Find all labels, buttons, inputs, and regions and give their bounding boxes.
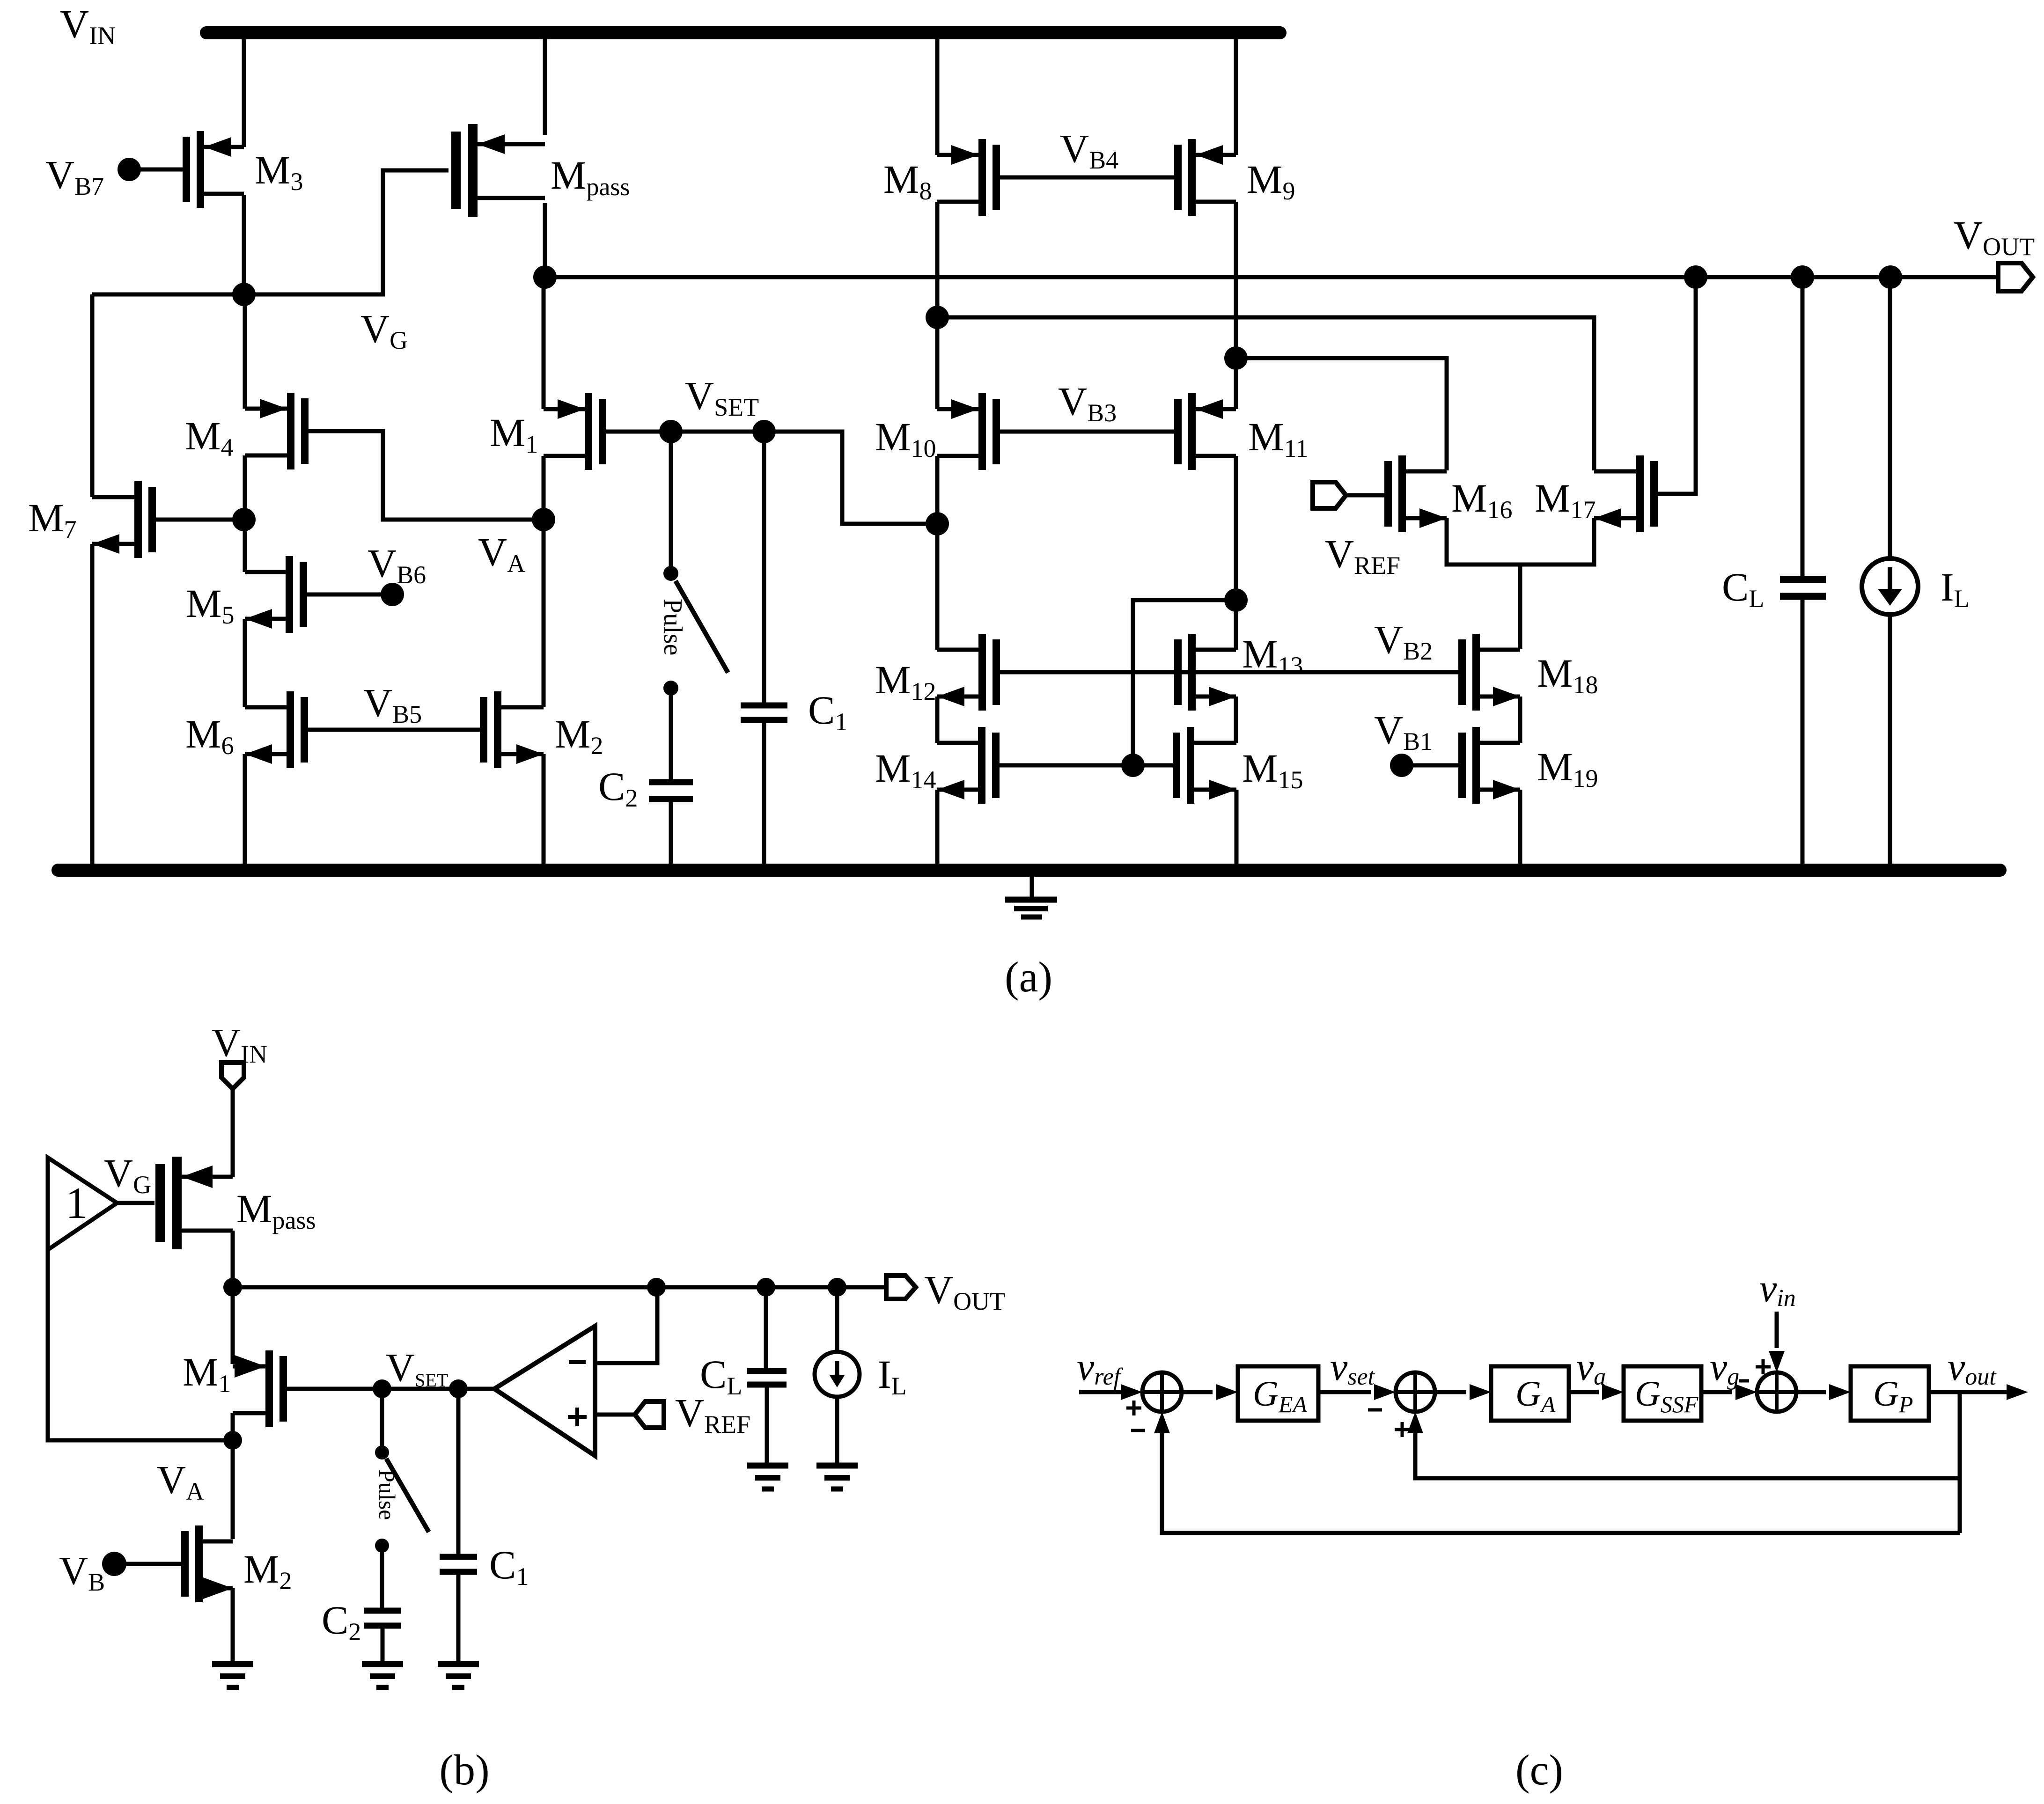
wire M5 source to M6 drain (243, 619, 247, 707)
switch terminal Pulse top (669, 432, 673, 566)
transistor M11 (PMOS) (1188, 393, 1196, 470)
wire VIN bus to M3 source (242, 39, 246, 147)
transistor M10 (PMOS) (978, 393, 986, 470)
wire C2 to ground (669, 802, 673, 864)
wire M19 source to ground (1518, 790, 1522, 864)
svg-text:(a): (a) (1005, 953, 1052, 1001)
wire M12 source to M14 drain (935, 697, 940, 743)
wire CL to ground b (765, 1387, 769, 1463)
wire M7 source to ground (90, 544, 95, 864)
transistor M1 (PMOS) (585, 393, 592, 470)
node VOUT b (223, 1278, 242, 1297)
node VSET b 2 (449, 1379, 468, 1398)
opamp minus sign (569, 1360, 586, 1364)
wire VOUT to CL b (764, 1287, 768, 1368)
capacitor CL b (747, 1368, 787, 1374)
node M8 drain branch (926, 306, 949, 329)
wire VOUT node to M1 source b (231, 1287, 235, 1364)
wire M17 gate to VOUT (1657, 277, 1696, 494)
wire GEA to S2 (1318, 1390, 1371, 1394)
wire VOUT rail (545, 275, 1998, 279)
node M14-M15 gate (1121, 754, 1145, 777)
wire M3 drain to node VG (242, 195, 246, 294)
wire VB4 M8 gate to M9 gate (1000, 176, 1174, 180)
summer S2 (1396, 1372, 1435, 1412)
wire M2 source to ground (542, 754, 546, 864)
wire vref input (1079, 1390, 1123, 1394)
ground symbol (1030, 877, 1034, 897)
wire M14 gate to M15 gate (997, 763, 1177, 768)
wire GSSF to S3 (1701, 1390, 1732, 1394)
wire M3 gate to VB7 (136, 168, 185, 172)
wire IL to ground b (835, 1397, 839, 1463)
wire opamp plus input to VREF b (595, 1413, 635, 1417)
svg-text:Pulse: Pulse (658, 599, 687, 655)
block GSSF (1624, 1366, 1701, 1421)
ground bus (58, 864, 2000, 877)
wire M7 drain up to VG wire (90, 294, 95, 497)
node VOUT-CL b (757, 1278, 775, 1297)
wire M8 drain down (935, 202, 940, 317)
sign minus S1 (1131, 1429, 1145, 1432)
wire M9-drain to M16 drain (1236, 358, 1447, 470)
transistor M15 (NMOS) (1187, 727, 1194, 804)
wire M2 drain to node VA (542, 520, 546, 707)
node VA (532, 508, 555, 531)
wire M1 gate to VSET (606, 430, 671, 434)
wire M6 source to ground (243, 754, 247, 864)
wire SSF joint sources (1447, 518, 1594, 565)
switch terminal Pulse bottom (663, 681, 678, 696)
wire VB2 gates M12 M13 M18 (1000, 670, 1460, 675)
wire M18 source to M19 drain (1518, 697, 1522, 743)
port VREF b (635, 1401, 664, 1428)
transistor M7 (NMOS) (134, 481, 142, 558)
wire VSET segment (671, 430, 764, 434)
wire VOUT to CL (1801, 277, 1805, 576)
port VREF (1313, 482, 1346, 508)
wire VOUT node to M1 source (542, 277, 546, 409)
transistor M16 (NMOS) (1398, 455, 1406, 532)
transistor M2 (NMOS) (494, 691, 501, 768)
wire VIN bus to M8 source (935, 39, 940, 155)
wire VG to Mpass gate (244, 170, 449, 294)
feedback wire buffer to VA b (48, 1250, 233, 1440)
wire CL to ground (1801, 600, 1805, 864)
svg-text:(c): (c) (1515, 1746, 1563, 1794)
wire M10 drain column (935, 456, 940, 650)
switch Pulse b bottom (375, 1539, 389, 1553)
sign minus S2 (1368, 1408, 1382, 1412)
transistor M18 (NMOS) (1472, 634, 1480, 711)
transistor M14 (NMOS) (978, 727, 985, 804)
wire VSET to opamp b (382, 1387, 494, 1391)
transistor M19 (NMOS) (1472, 727, 1480, 804)
summer S1 (1142, 1372, 1182, 1412)
wire Mpass drain to VOUT node (543, 203, 547, 277)
wire M7 gate lead (156, 518, 244, 522)
transistor Mpass (PMOS pass device) (468, 124, 478, 217)
capacitor C1 (741, 703, 787, 709)
block GEA (1238, 1366, 1318, 1421)
wire M1 drain to node VA (542, 456, 546, 520)
terminal VB6 (381, 583, 404, 606)
wire feedback to S1 (1162, 1433, 1960, 1533)
wire VG to M7 drain column (92, 293, 244, 297)
wire VOUT to IL (1888, 277, 1892, 558)
wire vin input (1775, 1312, 1779, 1348)
port VOUT (1998, 263, 2033, 291)
ground IL b (816, 1463, 858, 1469)
transistor M2 b (NMOS) (195, 1525, 203, 1602)
transistor M5 (NMOS) (286, 556, 293, 633)
summer S3 (1757, 1372, 1796, 1412)
switch Pulse b top (380, 1389, 384, 1446)
wire feedback tap (1958, 1392, 1962, 1533)
wire M15 source to ground (1235, 790, 1239, 864)
wire VB5 M6 gate to M2 gate (308, 728, 485, 732)
wire cross-couple to M14/M15 gates (1133, 600, 1236, 765)
transistor M4 (PMOS) (287, 393, 294, 469)
terminal VB b (102, 1552, 126, 1576)
wire to M10 source (935, 317, 940, 409)
opamp plus sign (568, 1415, 587, 1419)
node VOUT-IL (1879, 265, 1902, 289)
block GA (1491, 1366, 1569, 1421)
node VSET b 1 (373, 1379, 391, 1398)
capacitor C2 b (364, 1608, 401, 1614)
wire opamp minus input to VOUT b (595, 1287, 657, 1363)
port VOUT b (886, 1276, 916, 1299)
wire M1 drain to VA b (231, 1413, 235, 1440)
sign minus vg input (1739, 1379, 1749, 1383)
wire S3 to GP (1796, 1390, 1826, 1394)
terminal VB1 (1390, 754, 1413, 777)
wire VOUT to IL b (835, 1287, 839, 1352)
svg-text:1: 1 (66, 1178, 88, 1228)
node VG (232, 283, 256, 306)
transistor M9 (PMOS) (1188, 139, 1196, 216)
svg-text:Pulse: Pulse (374, 1469, 400, 1520)
wire VSET to C1 (762, 432, 766, 703)
node VSET 1 (659, 420, 683, 443)
ground C1 b (438, 1661, 479, 1667)
ground M2 b (212, 1661, 253, 1667)
wire M11 drain to M13 drain (1234, 600, 1238, 650)
wire vout output (1929, 1390, 2008, 1394)
wire M9 node to M11 source (1234, 358, 1238, 409)
node M7 gate (232, 508, 256, 531)
wire VREF to M16 gate (1346, 493, 1387, 498)
wire M2 source to ground b (231, 1588, 235, 1661)
transistor M12 (NMOS) (978, 634, 986, 711)
switch blade Pulse b (386, 1459, 429, 1532)
ground C2 b (362, 1661, 403, 1667)
wire M14 source to ground (935, 790, 940, 864)
node VOUT-opamp b (647, 1278, 666, 1297)
transistor M6 (NMOS) (287, 691, 294, 768)
capacitor C2 (649, 779, 693, 785)
node VOUT at Mpass drain (533, 265, 557, 289)
capacitor CL (1780, 576, 1826, 583)
wire VSET to second stage input (764, 432, 937, 524)
wire SSF to M18 drain (1518, 565, 1522, 649)
wire C1 to ground b (456, 1575, 461, 1661)
transistor M8 (PMOS) (978, 139, 986, 216)
wire buffer to Mpass gate b (117, 1201, 154, 1205)
wire M19 gate to VB1 (1408, 763, 1460, 768)
wire VB3 M10 gate to M11 gate (1000, 430, 1174, 434)
node VA b (223, 1431, 242, 1450)
wire VIN bus to M9 source (1234, 39, 1238, 155)
node M11 drain (1224, 588, 1248, 612)
wire node to M5 drain (243, 520, 247, 572)
current source IL (1862, 558, 1918, 615)
block GP (1851, 1366, 1929, 1421)
wire VSET to C1 b (456, 1389, 461, 1554)
wire M1 gate to VSET b (287, 1387, 382, 1391)
transistor M17 (NMOS) (1636, 455, 1644, 532)
wire C2 to ground b (381, 1628, 385, 1661)
switch blade Pulse (676, 581, 728, 673)
wire S2 to GA (1435, 1390, 1466, 1394)
current source IL b (815, 1352, 860, 1397)
node M9 drain branch (1224, 346, 1248, 370)
wire VA to M2 drain b (231, 1440, 235, 1539)
capacitor C1 b (440, 1554, 477, 1560)
wire M2 gate to VB b (121, 1562, 181, 1566)
wire M13 source to M15 drain (1234, 697, 1238, 743)
node VOUT-IL b (828, 1278, 846, 1297)
terminal VB7 (118, 158, 141, 181)
sign plus S3 (1756, 1365, 1771, 1369)
wire M4 drain to M7 gate node (243, 455, 247, 520)
transistor Mpass b (PMOS) (172, 1157, 182, 1249)
transistor M1 b (PMOS) (265, 1350, 273, 1427)
wire M5 gate to VB6 (307, 593, 386, 597)
wire feedback to S2 (1415, 1433, 1960, 1478)
wire Mpass drain to VOUT b (231, 1231, 235, 1287)
wire GA to GSSF (1569, 1390, 1599, 1394)
node VSET 2 (752, 420, 776, 443)
wire VIN bus to Mpass source (543, 39, 547, 135)
sign plus S2 (1395, 1428, 1410, 1431)
wire C1 to ground (762, 723, 766, 864)
ground CL b (747, 1463, 788, 1469)
node second stage input (926, 512, 949, 535)
wire S1 to GEA (1182, 1390, 1213, 1394)
wire M8-drain to M17 drain (937, 317, 1594, 470)
wire VG column to M4 source (243, 294, 247, 409)
node VOUT-M17gate (1684, 265, 1707, 289)
svg-text:(b): (b) (439, 1746, 489, 1794)
VIN power bus (206, 26, 1280, 39)
transistor M13 (NMOS) (1188, 634, 1196, 711)
wire VIN to Mpass source b (231, 1089, 235, 1177)
sign plus S1 (1126, 1407, 1141, 1410)
port VIN b (221, 1063, 244, 1089)
wire M9 drain down (1234, 202, 1238, 358)
transistor M3 (PMOS) (197, 131, 204, 208)
buffer amplifier 1 (48, 1158, 117, 1250)
wire M11 drain down (1234, 456, 1238, 600)
node VOUT-CL (1791, 265, 1814, 289)
wire M4 gate to node VA (309, 431, 544, 520)
wire VOUT rail b (233, 1285, 886, 1290)
wire IL to ground (1888, 615, 1892, 864)
op-amp error amplifier (494, 1326, 595, 1456)
